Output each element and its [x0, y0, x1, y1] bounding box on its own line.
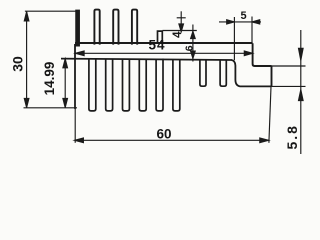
svg-text:30: 30	[10, 56, 26, 72]
svg-text:54: 54	[148, 38, 165, 53]
svg-text:5.8: 5.8	[284, 124, 300, 149]
svg-text:60: 60	[156, 127, 171, 142]
svg-text:14.99: 14.99	[42, 62, 57, 96]
svg-text:6: 6	[184, 45, 196, 51]
svg-text:4: 4	[172, 31, 184, 38]
svg-text:5: 5	[240, 10, 246, 22]
